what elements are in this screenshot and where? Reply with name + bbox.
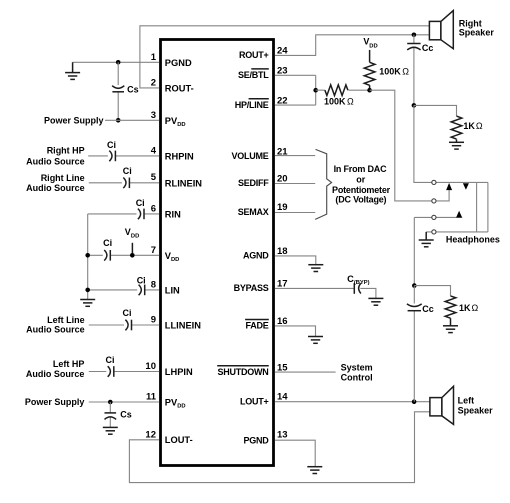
svg-text:HP/LINE: HP/LINE (235, 100, 269, 110)
power VDD symbol 100K (369, 50, 371, 62)
capacitor Ci pin4 (109, 151, 115, 162)
node rail/pin8 (85, 288, 90, 293)
overline FADE (245, 319, 269, 321)
capacitor Cc top (413, 35, 415, 106)
brace DAC group (315, 149, 331, 219)
ground CBYP (368, 298, 383, 305)
resistor 1K top right (451, 116, 462, 139)
IC U1 body (161, 40, 274, 466)
svg-text:V: V (125, 227, 131, 237)
node LOUT+/Cc junction (412, 399, 417, 404)
svg-text:Cc: Cc (422, 43, 434, 53)
svg-text:(DC Voltage): (DC Voltage) (335, 194, 386, 204)
svg-text:3: 3 (151, 110, 156, 121)
ground bias rail (80, 300, 95, 307)
headphone jack bracket (477, 182, 488, 232)
capacitor Ci pin9 (125, 320, 131, 331)
svg-text:System: System (341, 363, 373, 373)
speaker Right (429, 11, 453, 49)
node 100K junction (367, 88, 372, 93)
wire pin15 SHUTDOWN (275, 371, 336, 373)
capacitor Cs (top) (117, 62, 119, 120)
svg-text:Cs: Cs (127, 85, 139, 95)
svg-text:RHPIN: RHPIN (165, 152, 194, 162)
node SE/BTL junction (313, 88, 318, 93)
svg-text:Right HP: Right HP (47, 146, 85, 156)
svg-text:8: 8 (151, 279, 156, 290)
capacitor Ci pin5 (123, 178, 129, 189)
svg-text:1: 1 (151, 52, 157, 63)
wire headphone line1 right (436, 181, 488, 183)
svg-text:FADE: FADE (245, 321, 268, 331)
svg-text:11: 11 (146, 392, 157, 403)
svg-text:Cc: Cc (422, 304, 434, 314)
svg-text:SEMAX: SEMAX (238, 207, 269, 217)
svg-text:AGND: AGND (243, 251, 269, 261)
svg-text:PGND: PGND (165, 58, 192, 68)
svg-text:7: 7 (151, 245, 156, 256)
svg-text:Audio Source: Audio Source (26, 325, 85, 335)
svg-text:6: 6 (151, 203, 156, 214)
ground pin18 (308, 265, 323, 272)
ground pin16 (308, 337, 323, 344)
headphone line2 segments (436, 190, 449, 201)
ground top-left (65, 62, 80, 79)
svg-text:ROUT-: ROUT- (165, 84, 194, 94)
svg-text:Left HP: Left HP (53, 359, 85, 369)
capacitor Ci pin7 (104, 250, 110, 261)
svg-text:LLINEIN: LLINEIN (165, 321, 201, 331)
svg-text:Ci: Ci (103, 238, 112, 248)
wire junction to 100K (316, 89, 370, 91)
jack contacts circles (432, 180, 436, 184)
wire pin18 AGND (275, 256, 316, 265)
wire pin2 ROUT- riser and top rail to Right Speaker (140, 26, 430, 88)
svg-text:LHPIN: LHPIN (165, 367, 193, 377)
svg-text:100KΩ: 100KΩ (324, 96, 354, 106)
svg-text:SHUTDOWN: SHUTDOWN (218, 367, 269, 377)
wire pin10 LHPIN (89, 371, 159, 373)
svg-text:Audio Source: Audio Source (26, 183, 85, 193)
svg-text:Left: Left (458, 396, 475, 406)
node pin3/Cs junction (116, 118, 121, 123)
svg-text:RIN: RIN (165, 210, 181, 220)
svg-text:SEDIFF: SEDIFF (238, 178, 269, 188)
wire pin13 PGND (275, 440, 315, 467)
resistor 1K left (445, 296, 456, 318)
svg-text:10: 10 (145, 361, 156, 372)
svg-text:100KΩ: 100KΩ (379, 66, 409, 76)
wire pin5 RLINEIN (89, 182, 159, 184)
node rail/1K left junction (412, 283, 417, 288)
ground headphones (419, 232, 434, 247)
svg-text:Power Supply: Power Supply (25, 397, 85, 407)
svg-text:Speaker: Speaker (459, 27, 495, 37)
arrow up contact 1 (446, 183, 452, 190)
wire pin3 PVDD from Power Supply (105, 119, 159, 121)
node pin11/Cs junction (108, 400, 113, 405)
wire pin7 VDD (88, 254, 159, 256)
svg-text:Headphones: Headphones (446, 235, 500, 245)
node pin1/Cs junction (116, 60, 121, 65)
svg-text:In From DAC: In From DAC (334, 164, 387, 174)
headphone line3 (414, 216, 462, 218)
arrow down contact (463, 183, 469, 190)
overline BTL (251, 68, 268, 70)
power VDD symbol pin7 (131, 243, 133, 256)
svg-text:DD: DD (131, 234, 139, 240)
wire pin14 LOUT+ (275, 401, 430, 403)
wire pin17 BYPASS (275, 288, 376, 298)
svg-text:Audio Source: Audio Source (26, 156, 85, 166)
svg-text:Speaker: Speaker (458, 406, 494, 416)
svg-text:Control: Control (341, 373, 373, 383)
capacitor Ci pin10 (108, 366, 114, 377)
svg-text:4: 4 (151, 145, 157, 156)
wire bias rail left (87, 214, 89, 300)
capacitor Ci pin6 (138, 209, 144, 220)
wire pin9 LLINEIN (89, 324, 159, 326)
ground pin13 (307, 467, 322, 474)
capacitor Cs (bottom) (109, 402, 111, 427)
svg-text:Left Line: Left Line (47, 315, 85, 325)
wire pin11 PVDD (89, 401, 159, 403)
svg-text:Ci: Ci (123, 166, 132, 176)
svg-text:Ci: Ci (106, 355, 115, 365)
svg-text:BYPASS: BYPASS (234, 283, 269, 293)
svg-text:2: 2 (151, 77, 156, 88)
wire pin1 PGND to ground (73, 61, 160, 63)
svg-text:DD: DD (369, 43, 377, 49)
wire pin23 SE/BTL (275, 74, 316, 76)
wire pin4 RHPIN (88, 155, 159, 157)
speaker Left (430, 386, 454, 424)
wire pins 21/20/19 volume group (275, 156, 315, 213)
wire 100K bottom to junction (369, 85, 371, 90)
svg-text:1KΩ: 1KΩ (463, 121, 483, 131)
wire line3 rail down (413, 217, 415, 285)
svg-text:Ci: Ci (136, 198, 145, 208)
wire junction to 1K left (414, 286, 450, 296)
wire pin22 HP/LINE (275, 104, 316, 106)
wire junction to headphone ring contact (370, 90, 432, 201)
svg-text:Audio Source: Audio Source (26, 369, 85, 379)
svg-text:PGND: PGND (243, 436, 269, 446)
svg-text:9: 9 (151, 315, 156, 326)
svg-text:VOLUME: VOLUME (231, 151, 268, 161)
node rail/pin7 (85, 253, 90, 258)
capacitor CBYP (354, 283, 361, 294)
svg-text:Power Supply: Power Supply (44, 115, 104, 125)
svg-text:LOUT-: LOUT- (165, 435, 193, 445)
svg-text:ROUT+: ROUT+ (239, 50, 269, 60)
node speaker/Cc junction (412, 33, 417, 38)
ground 1K top right (449, 139, 464, 149)
svg-text:19: 19 (277, 202, 288, 213)
overline LINE (249, 98, 269, 100)
arrow up contact 2 (456, 211, 462, 218)
headphone line4 (426, 231, 488, 233)
svg-text:5: 5 (151, 172, 157, 183)
svg-text:LOUT+: LOUT+ (240, 397, 269, 407)
capacitor Cc left (413, 286, 415, 402)
resistor 100K vertical (364, 62, 375, 85)
svg-text:Right Line: Right Line (41, 173, 85, 183)
svg-text:1KΩ: 1KΩ (459, 303, 479, 313)
wire rail to headphone tip contact (414, 105, 432, 182)
svg-text:Ci: Ci (107, 140, 116, 150)
overline SHUTDOWN (217, 365, 269, 367)
resistor 100K horizontal (325, 85, 348, 96)
wire pin6 RIN (88, 213, 159, 215)
wire joining pin23-pin22 (315, 75, 317, 105)
svg-text:LIN: LIN (165, 286, 180, 296)
svg-text:Cs: Cs (120, 410, 132, 420)
svg-text:or: or (356, 174, 365, 184)
wire pin12 LOUT- down and bottom rail to Left Speaker (129, 412, 430, 483)
wire pin8 LIN (88, 289, 159, 291)
svg-text:SE/BTL: SE/BTL (238, 70, 269, 80)
ground 1K left (443, 318, 458, 332)
ground below Cs bottom (103, 427, 118, 434)
svg-text:Ci: Ci (137, 276, 146, 286)
svg-text:12: 12 (145, 429, 156, 440)
svg-text:14: 14 (277, 392, 288, 403)
node VDD/pin7 (130, 253, 135, 258)
wire pin16 FADE (275, 326, 316, 337)
wire pin24 ROUT+ riser to speaker (275, 35, 430, 56)
svg-text:Ci: Ci (123, 308, 132, 318)
svg-text:RLINEIN: RLINEIN (165, 178, 202, 188)
svg-text:13: 13 (277, 430, 288, 441)
capacitor Ci pin8 (139, 285, 145, 296)
wire junction to 1K top right (414, 105, 457, 116)
node Cc/1K junction (412, 103, 417, 108)
